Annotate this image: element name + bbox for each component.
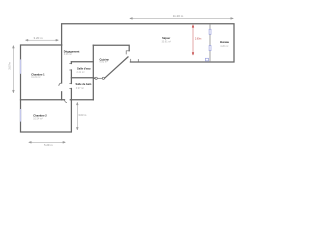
svg-text:Salle de bain: Salle de bain [76, 82, 92, 86]
svg-text:3.06 m²: 3.06 m² [64, 53, 72, 56]
svg-text:11.21 m²: 11.21 m² [31, 76, 40, 79]
svg-text:4.20 m²: 4.20 m² [220, 45, 228, 48]
svg-text:30.61 m²: 30.61 m² [162, 40, 172, 43]
svg-text:2.80m: 2.80m [195, 39, 201, 41]
svg-text:10.54 m²: 10.54 m² [33, 118, 43, 121]
svg-text:6.82 m²: 6.82 m² [100, 61, 108, 64]
svg-text:Bureau: Bureau [220, 40, 229, 44]
svg-text:5.29 m: 5.29 m [44, 143, 53, 147]
svg-text:3.20 m: 3.20 m [34, 36, 44, 40]
svg-text:3.07m: 3.07m [8, 61, 12, 69]
svg-text:Salle d'eau: Salle d'eau [77, 67, 91, 71]
svg-text:11.20 m: 11.20 m [173, 14, 184, 18]
svg-text:2.41 m²: 2.41 m² [77, 71, 85, 74]
svg-text:3.97 m²: 3.97 m² [76, 87, 84, 90]
svg-text:3.03 m: 3.03 m [78, 113, 86, 117]
